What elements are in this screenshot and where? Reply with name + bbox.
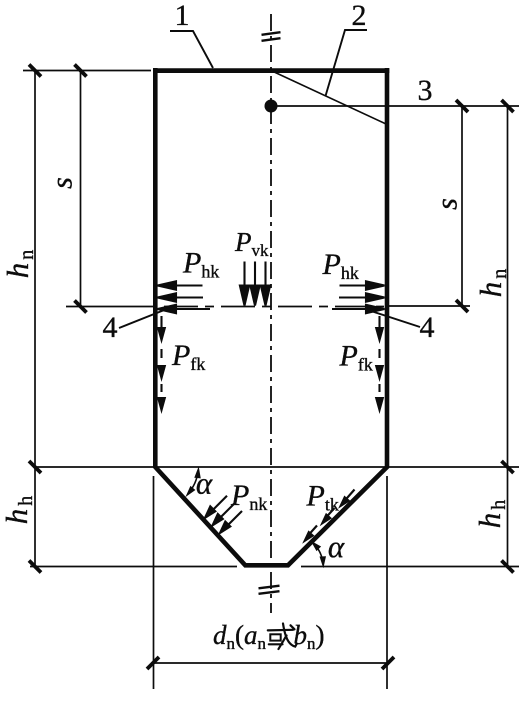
Ptk arrows along right hopper slope xyxy=(305,490,355,541)
svg-text:s: s xyxy=(431,198,464,210)
Pvk arrows xyxy=(240,262,270,306)
leader line 2 xyxy=(326,30,368,96)
tick hh bottom right xyxy=(502,561,514,573)
silo wall outline xyxy=(155,68,387,565)
extension line hopper bottom left xyxy=(30,566,237,568)
break mark bottom xyxy=(259,586,280,594)
svg-text:3: 3 xyxy=(418,74,433,107)
extension line bottom right wall xyxy=(386,476,388,689)
extension line bottom left wall xyxy=(153,476,155,689)
tick hn top right xyxy=(502,100,514,112)
svg-text:1: 1 xyxy=(175,0,190,32)
break mark top xyxy=(262,32,281,41)
leader line 4 left xyxy=(119,309,168,329)
Phk arrows left xyxy=(158,281,211,313)
dimension line hn-hh right xyxy=(507,106,509,567)
dashed surface level line inside silo xyxy=(158,306,384,308)
leader line 4 right xyxy=(365,309,420,327)
extension line hopper top xyxy=(35,466,519,468)
svg-text:α: α xyxy=(328,529,345,564)
angle arc alpha bottom-right xyxy=(313,543,325,566)
extension line hopper bottom right xyxy=(301,566,519,568)
dimension line hn-hh left xyxy=(34,71,36,567)
label hh left (rotated) xyxy=(0,494,37,525)
tick s top right xyxy=(456,100,468,112)
label hn right (rotated) xyxy=(473,267,511,298)
leader line 1 xyxy=(170,31,213,68)
extension line top-left xyxy=(23,70,151,72)
extension line s-level left xyxy=(66,306,153,308)
tick hn top left xyxy=(29,65,41,77)
silo top edge xyxy=(153,68,389,73)
tick hh bottom left xyxy=(29,561,41,573)
Pfk arrows right xyxy=(376,316,383,410)
dimension line s right xyxy=(461,106,463,306)
label hn left (rotated) xyxy=(0,248,38,279)
tick hn bottom left xyxy=(29,461,41,473)
svg-text:4: 4 xyxy=(420,311,435,344)
node dot on centerline xyxy=(265,100,278,113)
dimension ticks xyxy=(29,65,514,670)
tick s bottom left xyxy=(75,301,87,313)
hand-drawn CJK character "huo" (or) xyxy=(268,624,297,650)
Phk arrows right xyxy=(332,281,385,313)
label dn(an or bn) xyxy=(213,620,325,653)
tick hn bottom right xyxy=(502,461,514,473)
svg-text:2: 2 xyxy=(352,0,367,32)
tick s bottom right xyxy=(456,300,468,312)
dimension line s left xyxy=(80,71,82,307)
svg-text:α: α xyxy=(196,466,213,501)
extension line s-level right xyxy=(389,305,470,307)
dimension line dn bottom xyxy=(151,662,389,664)
tick dn left xyxy=(147,657,159,669)
svg-text:4: 4 xyxy=(103,311,118,344)
tick dn right xyxy=(382,657,394,669)
svg-text:s: s xyxy=(46,177,79,189)
Pfk arrows left xyxy=(158,316,165,410)
leader line 3 / surface line right xyxy=(271,105,519,107)
centerline xyxy=(270,14,272,613)
angle arc alpha top-left xyxy=(187,469,200,495)
Pnk arrows on left hopper slope xyxy=(205,496,242,533)
tick s top left xyxy=(75,65,87,77)
material surface diagonal line 2 xyxy=(272,71,386,124)
label hh right (rotated) xyxy=(472,498,510,529)
